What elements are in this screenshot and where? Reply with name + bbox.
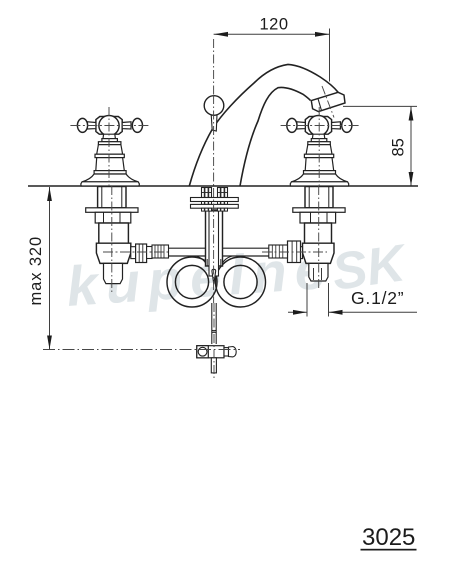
washer <box>293 208 345 213</box>
arrow 120 right <box>315 32 329 37</box>
shank <box>98 187 126 208</box>
nipple <box>147 247 152 259</box>
elbow <box>303 243 335 263</box>
dim 85 line <box>410 106 412 186</box>
arrow 85 top <box>409 107 414 121</box>
svg-text:120: 120 <box>260 16 289 34</box>
lift knob <box>204 96 224 116</box>
spout vertical centerline <box>213 39 215 95</box>
dim 120 right extension line <box>329 29 331 82</box>
dim 85 extension line <box>343 105 417 107</box>
lift knob stem <box>211 115 217 132</box>
stud nut right <box>218 188 228 198</box>
arrow max320 bottom <box>47 336 52 350</box>
body <box>99 223 129 243</box>
shank <box>305 187 333 208</box>
left valve below counter <box>86 187 169 284</box>
right outlet axis <box>262 251 327 253</box>
hose collar <box>152 245 169 258</box>
outlet step <box>297 247 303 259</box>
washer <box>86 208 138 213</box>
pop-up rod <box>212 303 216 344</box>
svg-text:G.1/2”: G.1/2” <box>351 288 404 308</box>
right handle horizontal centerline <box>281 125 359 127</box>
G12 extension right <box>328 283 330 317</box>
tailpiece <box>309 263 328 281</box>
washer plate 1 <box>191 198 239 202</box>
right valve below counter <box>269 187 345 282</box>
countertop line <box>28 185 418 187</box>
arrow 120 left <box>214 32 228 37</box>
dim max320 line <box>49 187 51 350</box>
spout curves <box>189 64 338 186</box>
hose bend into left ring <box>196 256 207 265</box>
left handle assembly <box>77 116 142 187</box>
G12 extension left <box>306 283 308 317</box>
svg-text:3025: 3025 <box>362 524 415 551</box>
bottom reference dash-dot line <box>43 349 240 351</box>
washer plate 2 <box>191 204 239 208</box>
right handle assembly <box>287 116 352 187</box>
watermark kupelneSK <box>64 234 411 318</box>
left handle horizontal centerline <box>70 125 148 127</box>
right hose loop ring <box>216 257 266 307</box>
dim G12 left segment <box>288 311 307 313</box>
hose collar <box>269 245 288 258</box>
tailpiece <box>104 263 123 283</box>
right hose tube <box>223 248 270 256</box>
dim G12 right segment <box>329 311 418 313</box>
arrow G12 right <box>329 310 343 315</box>
aerator tip <box>311 92 345 111</box>
spout outer curve <box>189 64 338 186</box>
pop-up clamp <box>197 346 236 373</box>
left handle vertical centerline <box>108 107 110 186</box>
nut <box>95 212 131 223</box>
outlet step <box>131 247 136 259</box>
spout inner curve <box>240 87 311 186</box>
svg-text:max 320: max 320 <box>27 236 45 306</box>
svg-text:85: 85 <box>390 138 408 156</box>
left outlet axis <box>103 251 168 253</box>
underline 3025 <box>361 549 417 551</box>
right handle vertical centerline <box>318 107 320 186</box>
body <box>305 223 332 243</box>
elbow <box>96 243 130 263</box>
left hose tube <box>169 248 206 256</box>
nut <box>300 212 336 223</box>
aerator axis centerline <box>322 86 334 118</box>
hose nut <box>136 244 147 263</box>
clamp vertical centerline <box>213 303 215 378</box>
dim 120 line <box>214 33 330 35</box>
center shank below counter <box>206 210 223 276</box>
pop-up rod tip cone <box>212 269 216 284</box>
stud blocks between washers <box>202 202 228 205</box>
arrow 85 bottom <box>409 172 414 186</box>
hose bend into right ring <box>222 256 233 265</box>
hose nut <box>288 241 301 263</box>
left hose loop ring <box>167 257 217 307</box>
arrow G12 left <box>293 310 307 315</box>
arrow max320 top <box>47 187 52 201</box>
lower stud blocks <box>202 208 228 211</box>
stud nut left <box>202 188 212 198</box>
center mounting stack <box>191 188 239 212</box>
